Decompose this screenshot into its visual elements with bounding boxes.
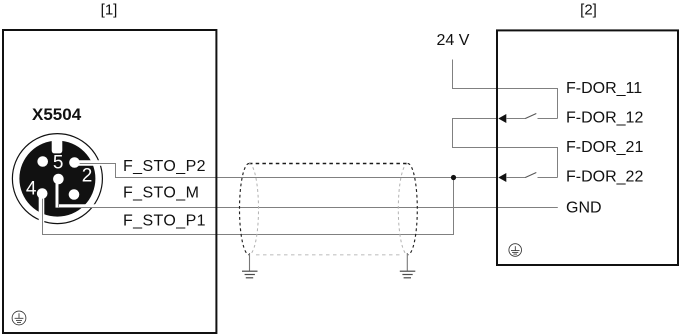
protective earth symbol box 1 — [12, 311, 26, 325]
box [2] device enclosure — [497, 30, 678, 265]
cable shield left ellipse inner arc — [249, 164, 259, 255]
wire stub pin 2 — [75, 163, 104, 165]
svg-text:5: 5 — [53, 152, 64, 173]
switch contact F-DOR_12 leads and blade — [506, 118, 526, 120]
wire casing pin 2 exit — [76, 160, 103, 166]
switch contact F-DOR_12 arrow — [498, 114, 506, 123]
pin 2 — [69, 157, 80, 168]
svg-text:2: 2 — [82, 166, 93, 187]
svg-text:24 V: 24 V — [437, 32, 470, 49]
wire casing pin 5 exit (L-shaped) — [57, 181, 103, 206]
wire casing pin 4 exit — [39, 195, 45, 223]
ground symbol right — [400, 271, 416, 278]
wire F_STO_P2 from pin 2 to F-DOR_22 input — [75, 164, 499, 178]
connector X5504 outer ring — [12, 134, 102, 224]
svg-text:4: 4 — [26, 179, 37, 200]
svg-text:F_STO_P1: F_STO_P1 — [123, 213, 206, 230]
svg-text:F_STO_M: F_STO_M — [123, 184, 199, 201]
pin top-left — [37, 156, 48, 167]
svg-text:F_STO_P2: F_STO_P2 — [123, 158, 206, 175]
wire stub pin 5 — [59, 179, 104, 208]
svg-text:F-DOR_22: F-DOR_22 — [566, 168, 643, 185]
svg-text:[1]: [1] — [101, 2, 118, 19]
box [1] device enclosure — [3, 30, 216, 333]
svg-text:F-DOR_11: F-DOR_11 — [566, 80, 642, 97]
pin bottom-right — [69, 189, 80, 200]
svg-text:GND: GND — [566, 199, 602, 216]
switch contact F-DOR_22 leads and blade — [506, 177, 526, 179]
junction node dot — [451, 175, 456, 180]
wire stub pin 4 — [42, 194, 44, 227]
cable shield left ellipse outer arc — [240, 164, 249, 255]
pin 5 center — [53, 174, 64, 185]
wire F_STO_P1 from pin 4 to node at junction — [43, 178, 454, 235]
ground symbol left — [242, 271, 258, 278]
svg-text:[2]: [2] — [580, 2, 597, 19]
cable shield top line — [249, 163, 408, 165]
shield drain wire left — [249, 253, 251, 271]
wire 24 V supply to F-DOR_11 — [453, 60, 558, 119]
svg-text:X5504: X5504 — [32, 105, 82, 124]
connector keyway notch — [52, 139, 63, 153]
connector X5504 body disc — [19, 141, 95, 217]
svg-text:F-DOR_21: F-DOR_21 — [566, 139, 643, 156]
shield drain wire right — [406, 253, 408, 271]
protective earth symbol box 2 — [509, 244, 522, 257]
cable shield right ellipse outer arc — [408, 164, 418, 255]
wire F_STO_M from pin 5 to GND — [59, 179, 558, 208]
cable shield bottom line — [256, 254, 402, 256]
switch contact F-DOR_22 arrow — [498, 173, 506, 182]
pin 4 — [37, 188, 48, 199]
svg-text:F-DOR_12: F-DOR_12 — [566, 109, 643, 126]
wire F-DOR_12 output loop to F-DOR_21 — [453, 119, 558, 178]
cable shield right ellipse inner arc — [398, 164, 408, 255]
